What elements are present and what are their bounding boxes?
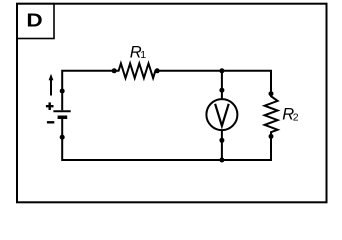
voltmeter V (meter circle) <box>206 99 237 130</box>
node: battery top terminal <box>60 89 65 94</box>
R2 value label <box>282 106 298 124</box>
wire: voltmeter branch top <box>221 71 223 99</box>
label box D <box>17 4 54 39</box>
node: R1 right terminal <box>155 68 160 73</box>
svg-text:1: 1 <box>140 49 146 61</box>
node: voltmeter top rail junction <box>219 68 224 73</box>
battery B1 <box>53 91 70 137</box>
resistor R1 (zigzag) <box>114 64 157 79</box>
node: voltmeter bottom rail junction <box>219 158 224 163</box>
node: battery bottom terminal <box>60 135 65 140</box>
battery + label <box>46 102 54 110</box>
wire: bottom rail <box>62 136 271 160</box>
node: voltmeter top terminal <box>219 88 224 93</box>
svg-text:2: 2 <box>293 112 299 124</box>
wire: voltmeter branch bottom <box>221 131 223 161</box>
resistor R2 (vertical zigzag) <box>265 94 278 137</box>
node: R2 bottom terminal <box>269 134 274 139</box>
svg-text:D: D <box>26 10 42 31</box>
R1 value label <box>130 44 146 62</box>
battery - label <box>47 121 54 123</box>
node: R1 left terminal <box>112 68 117 73</box>
current direction arrow <box>49 74 54 96</box>
wire: top rail right section (R1 right terminal to R2 branch corner) <box>157 71 271 94</box>
node: R2 top terminal <box>269 91 274 96</box>
wire: top rail left section (battery to R1 left terminal) <box>62 71 114 91</box>
node: voltmeter bottom terminal <box>219 138 224 143</box>
